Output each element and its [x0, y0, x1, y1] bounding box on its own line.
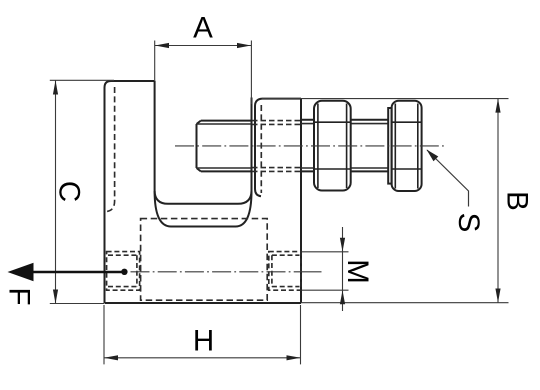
hidden cross hole left	[107, 252, 140, 291]
hidden cross hole right	[269, 252, 301, 291]
centerline cross hole axis	[131, 271, 301, 273]
hidden thread through arm	[252, 121, 301, 172]
label S	[452, 213, 485, 233]
bolt shank segments	[301, 120, 388, 172]
dimension H	[104, 305, 301, 364]
label M	[341, 259, 374, 284]
svg-text:B: B	[500, 191, 533, 211]
force arrow F	[8, 263, 128, 281]
label C	[52, 181, 85, 202]
bolt thread minor lines in slot	[197, 124, 252, 168]
U slot inner outline	[155, 81, 252, 204]
nut N1	[314, 101, 351, 191]
bracket outline	[105, 81, 302, 304]
svg-text:A: A	[193, 12, 213, 45]
leader S	[427, 150, 469, 207]
dimension A	[155, 41, 252, 105]
hook outer bottom	[155, 191, 252, 227]
plate left outline	[105, 81, 155, 303]
svg-text:C: C	[52, 181, 85, 202]
label F	[2, 287, 35, 305]
hidden line: arm inner	[260, 105, 262, 193]
washer	[388, 108, 391, 184]
centerline bolt axis	[175, 145, 447, 147]
svg-text:F: F	[2, 287, 35, 305]
hidden cavity rectangle	[141, 219, 268, 301]
dimension M	[302, 227, 349, 311]
nut N2	[392, 101, 422, 191]
arm left edge	[255, 99, 262, 197]
hidden line: plate bend	[105, 87, 115, 212]
centerline cross hole axis stub	[300, 271, 322, 273]
svg-text:S: S	[452, 213, 485, 233]
right edge	[300, 99, 302, 303]
bolt end in slot	[197, 121, 252, 172]
svg-text:H: H	[193, 325, 214, 358]
bottom edge	[105, 302, 302, 304]
dimension B	[262, 99, 509, 303]
svg-text:M: M	[341, 259, 374, 284]
arm top edge	[262, 98, 301, 100]
dimension C	[50, 80, 114, 303]
label B	[500, 191, 533, 211]
